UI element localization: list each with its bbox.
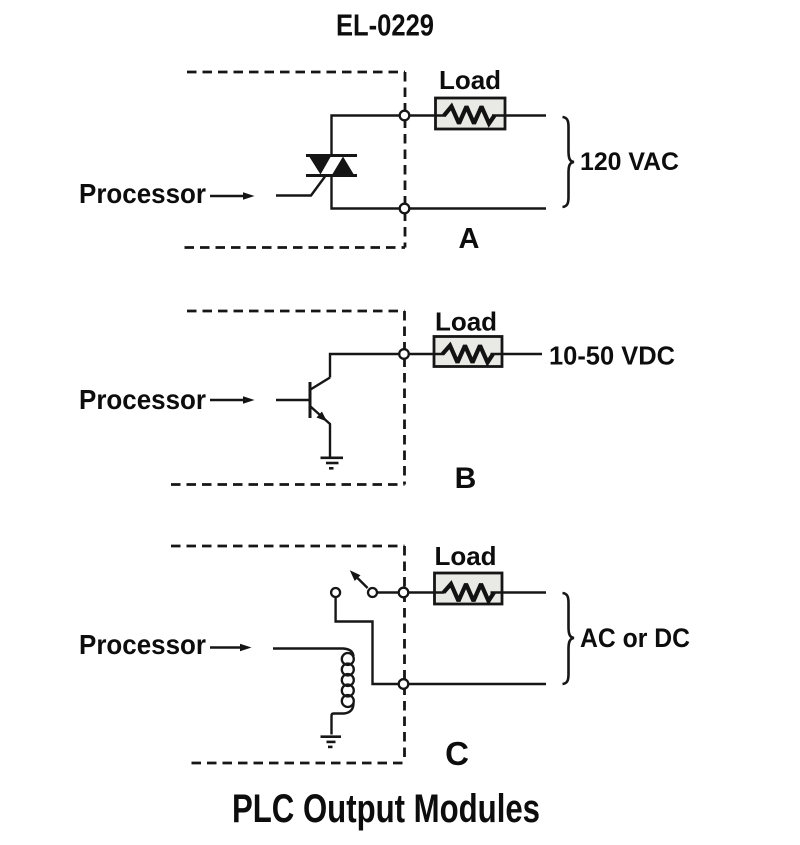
svg-text:Processor: Processor (79, 384, 206, 415)
svg-text:Processor: Processor (79, 178, 206, 209)
svg-text:Load: Load (435, 307, 497, 337)
svg-text:AC or DC: AC or DC (580, 623, 690, 653)
svg-text:A: A (459, 223, 480, 255)
svg-text:PLC Output Modules: PLC Output Modules (232, 787, 540, 831)
svg-text:Processor: Processor (79, 629, 206, 660)
svg-text:Load: Load (434, 541, 496, 571)
svg-text:Load: Load (439, 65, 501, 95)
svg-text:C: C (445, 735, 469, 772)
svg-text:10-50 VDC: 10-50 VDC (549, 341, 675, 371)
svg-text:B: B (455, 462, 477, 495)
svg-text:EL-0229: EL-0229 (336, 9, 434, 43)
svg-text:120 VAC: 120 VAC (580, 148, 679, 176)
